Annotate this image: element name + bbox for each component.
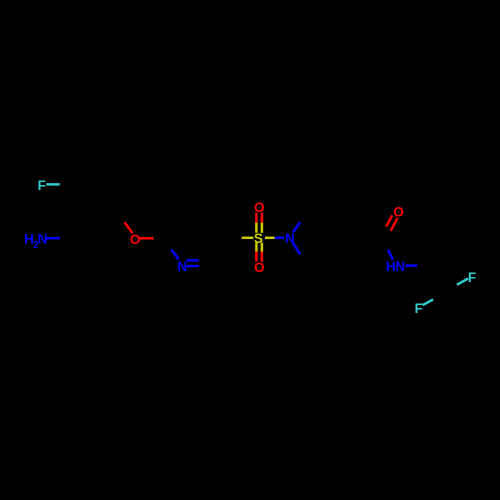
wire bond N-CH2 blue half (horizontal) (406, 264, 418, 267)
wire bond H2N-CH blue half (46, 237, 60, 240)
svg-text:F: F (468, 270, 476, 285)
atom F (aryl fluorine, top left) (38, 178, 46, 193)
svg-text:O: O (393, 205, 404, 220)
wire bond S=O top double, left line (red half + yellow half) (255, 213, 258, 233)
wire bond S-N blue half (horizontal) (275, 237, 285, 240)
svg-text:O: O (130, 232, 141, 247)
wire bond C5-S yellow half (horizontal) (242, 237, 254, 240)
atom O (sulfonyl oxygen, bottom) (254, 260, 265, 275)
wire bond C2-N blue half (diagonal) (171, 249, 178, 259)
svg-text:N: N (38, 231, 48, 246)
wire bond S-N yellow half (horizontal) (265, 237, 275, 240)
atom O (ether oxygen) (130, 232, 141, 247)
wire bond CH2-O red half (diagonal up-left) (125, 222, 133, 233)
atom F (difluoromethyl F, lower) (415, 301, 423, 316)
wire bond F-C cyan half (from F up-right) (423, 300, 434, 306)
svg-text:F: F (415, 301, 423, 316)
wire bond C=O double, right line red half (391, 218, 398, 231)
atom O (amide carbonyl oxygen) (393, 205, 404, 220)
svg-text:F: F (38, 178, 46, 193)
svg-text:H: H (386, 259, 396, 274)
atom N (amide HN) (386, 259, 405, 274)
svg-text:O: O (254, 260, 265, 275)
wire bond N-C blue half (up-right) (293, 222, 300, 232)
atom N (primary amine H2N) (24, 231, 47, 251)
wire bond S=O bottom double, left line (yellow half + red half) (255, 243, 258, 262)
wire bond S=O top double, right line (red half + yellow half) (261, 213, 264, 233)
wire bond S=O bottom double, right line (yellow half + red half) (261, 243, 264, 262)
atom S (sulfonyl sulfur) (254, 231, 263, 246)
wire bond O-C2(pyridine) red half (horizontal) (140, 237, 154, 240)
atom N (pyridine nitrogen) (177, 259, 187, 274)
atom O (sulfonyl oxygen, top) (254, 200, 265, 215)
wire bond N=C3 double, offset line blue half (187, 259, 199, 262)
svg-text:N: N (395, 259, 405, 274)
wire bond N=C3 double, axis line blue half (187, 265, 199, 268)
wire bond N-C blue half (down-right) (293, 243, 300, 255)
wire bond C(=O)-N blue half (diagonal down) (388, 250, 393, 260)
atom N (piperidine nitrogen) (285, 231, 295, 246)
atom F (difluoromethyl F, right) (468, 270, 476, 285)
svg-text:N: N (177, 259, 187, 274)
wire bond C=O double, left line red half (386, 215, 392, 226)
wire bond C-F cyan half (up-right to F) (457, 279, 468, 285)
wire bond F-C(aryl) cyan half (46, 183, 59, 186)
